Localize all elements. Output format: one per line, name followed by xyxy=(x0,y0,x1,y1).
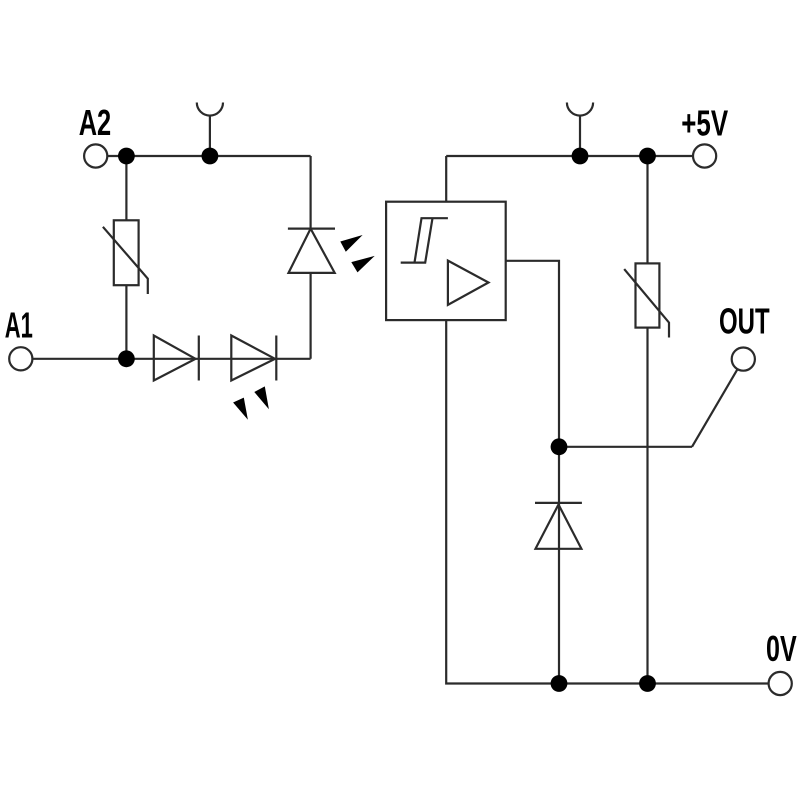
diode D4 freewheel xyxy=(535,503,582,549)
svg-text:+5V: +5V xyxy=(681,103,728,144)
LED D3 optocoupler emitter xyxy=(288,229,335,273)
svg-text:0V: 0V xyxy=(766,628,797,669)
wire varistor-2 lower xyxy=(646,328,648,684)
svg-text:A1: A1 xyxy=(5,305,33,346)
junction socket-right node xyxy=(572,148,589,165)
junction varistor-2 top node xyxy=(639,148,656,165)
optocoupler light arrows xyxy=(340,235,374,272)
svg-text:OUT: OUT xyxy=(719,301,770,342)
wire U1 bottom to 0V rail xyxy=(446,320,768,683)
terminal A2 xyxy=(84,144,107,167)
wire varistor branch lower xyxy=(125,285,127,359)
wire OUT horizontal xyxy=(559,446,692,448)
varistor RU2 xyxy=(624,263,669,337)
diode D2 xyxy=(231,336,276,381)
wire U1 top to +5V rail xyxy=(445,156,447,202)
LED emission arrows of D2 xyxy=(233,386,269,419)
varistor RU1 xyxy=(103,220,148,294)
diode D1 xyxy=(154,336,199,381)
svg-text:A2: A2 xyxy=(79,102,112,143)
terminal +5V xyxy=(693,144,716,167)
wire U1 output to OUT column xyxy=(506,261,559,684)
amplifier triangle in U1 xyxy=(448,261,489,305)
wire top-left rail xyxy=(126,155,310,157)
wire +5V rail xyxy=(446,155,693,157)
socket contact symbol right xyxy=(567,103,593,157)
wire varistor-2 upper xyxy=(646,156,648,263)
junction OUT node xyxy=(551,438,568,455)
wire A2 terminal to junction xyxy=(107,155,126,157)
hysteresis symbol in U1 xyxy=(401,218,448,262)
junction socket-left node xyxy=(202,148,219,165)
terminal 0V xyxy=(769,672,792,695)
junction 0V node D4 xyxy=(551,675,568,692)
wire right side of input loop xyxy=(310,156,312,229)
wire OUT diagonal to terminal xyxy=(692,369,738,447)
wire varistor branch upper xyxy=(125,156,127,220)
junction 0V node varistor xyxy=(639,675,656,692)
socket contact symbol left xyxy=(197,103,223,157)
op-amp receiver box U1 xyxy=(386,202,506,320)
wire A1 row xyxy=(32,358,310,360)
terminal OUT xyxy=(732,348,755,371)
junction A1 node xyxy=(118,350,135,367)
wire LED to A1 row xyxy=(310,273,312,359)
terminal A1 xyxy=(9,347,32,370)
junction A2 node xyxy=(118,148,135,165)
